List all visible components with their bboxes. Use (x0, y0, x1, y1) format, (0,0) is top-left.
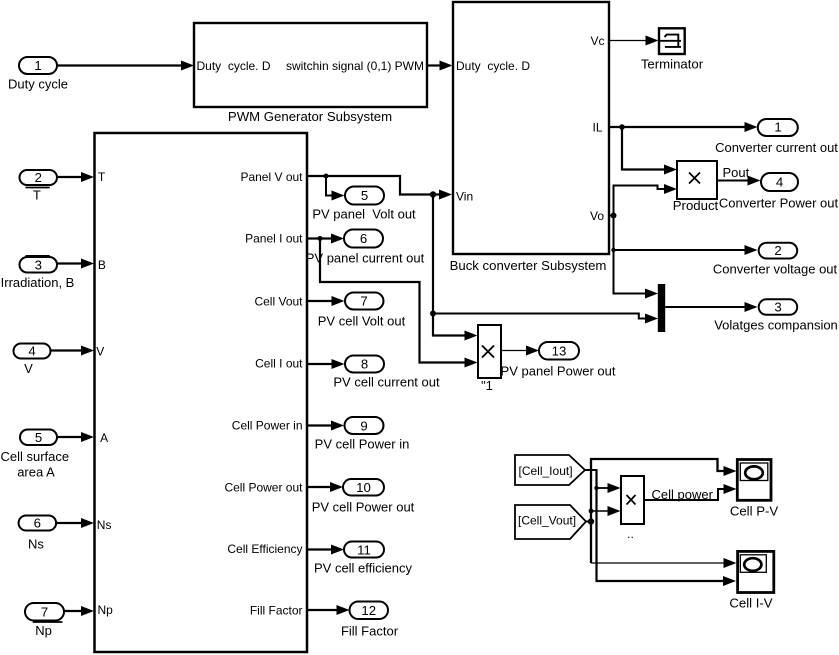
wire branch to port 5 (326, 176, 345, 201)
cell power product block (621, 476, 644, 541)
output port 7 PV cell Volt out (318, 293, 406, 329)
wire Cell Power out to port 10 (307, 482, 343, 492)
wire Panel V out to Vin (307, 174, 452, 200)
svg-text:2: 2 (774, 243, 781, 258)
PV panel subsystem U3 (95, 133, 308, 652)
output port 12 Fill Factor (341, 602, 399, 639)
svg-text:Converter voltage out: Converter voltage out (713, 262, 838, 277)
svg-text:Panel I out: Panel I out (245, 232, 303, 246)
svg-text:Irradiation, B: Irradiation, B (1, 275, 75, 290)
wire Vout to cell product in2 (589, 506, 621, 516)
output port 9 PV cell Power in (315, 417, 410, 452)
svg-text:B: B (98, 258, 106, 272)
wire port1 to PWM (57, 61, 194, 71)
svg-text:5: 5 (361, 188, 368, 203)
svg-text:Product: Product (673, 198, 719, 213)
output port 3 Volatges compansion (714, 299, 838, 332)
svg-text:PWM Generator Subsystem: PWM Generator Subsystem (228, 109, 392, 124)
output port 11 PV cell efficiency (314, 542, 413, 576)
svg-text:4: 4 (776, 175, 783, 190)
wire riser node B down to Product1 in1 (433, 195, 478, 341)
Product block (673, 161, 719, 213)
svg-text:Ns: Ns (97, 518, 112, 532)
input port 3 B (1, 256, 94, 290)
wire Product out to port 4, Pout (717, 165, 761, 186)
svg-text:Duty cycle: Duty cycle (8, 77, 68, 92)
svg-text:Cell power: Cell power (652, 487, 714, 502)
wire Fill Factor to port 12 (307, 605, 350, 615)
svg-text:A: A (100, 431, 108, 445)
wire mux in2 long from node B riser (430, 311, 658, 324)
wire PWM to Buck (427, 61, 453, 71)
svg-text:5: 5 (35, 430, 42, 445)
wire Product1 out to port 13 (501, 346, 539, 356)
svg-text:Fill Factor: Fill Factor (250, 604, 303, 618)
svg-text:Cell surface: Cell surface (0, 449, 69, 464)
input port 1 Duty cycle (8, 57, 68, 92)
From tag Cell_Vout (515, 505, 586, 539)
wire riser Iout down to Cell I-V in2 (597, 470, 737, 586)
PWM Generator Subsystem U1 (194, 23, 427, 124)
svg-text:Buck converter Subsystem: Buck converter Subsystem (450, 258, 607, 273)
svg-text:Np: Np (98, 603, 114, 617)
svg-text:2: 2 (35, 170, 42, 185)
svg-text:Volatges compansion: Volatges compansion (714, 318, 838, 333)
svg-text:Panel V out: Panel V out (240, 170, 303, 184)
From tag Cell_Iout (515, 455, 585, 485)
svg-text:7: 7 (41, 605, 48, 620)
wire mux out to port 3 (665, 302, 757, 312)
Buck converter Subsystem U2 (450, 2, 609, 273)
svg-text:10: 10 (356, 480, 371, 495)
svg-text:6: 6 (34, 516, 41, 531)
wire Cell Power in to port 9 (307, 421, 344, 431)
output port 2 Converter voltage out (713, 243, 838, 277)
svg-text:12: 12 (361, 603, 376, 618)
wire Vc to Terminator (609, 36, 659, 46)
output port 1 Converter current out (715, 119, 838, 155)
svg-text:6: 6 (360, 231, 367, 246)
svg-text:4: 4 (28, 344, 35, 359)
svg-text:PV cell current out: PV cell current out (333, 375, 440, 390)
wire Vout riser to Cell I-V in1 (591, 558, 737, 568)
svg-text:T: T (98, 170, 106, 184)
svg-text:[Cell_Iout]: [Cell_Iout] (519, 464, 573, 478)
input port 6 Ns (19, 516, 94, 552)
svg-text:[Cell_Vout]: [Cell_Vout] (518, 514, 576, 528)
svg-text:Pout: Pout (723, 165, 750, 180)
svg-text:Duty cycle. D: Duty cycle. D (197, 59, 271, 73)
wire IL to Converter current out (609, 122, 758, 132)
wire Cell I out to port 8 (307, 359, 345, 369)
output port 4 Converter Power out (719, 173, 839, 211)
output port 8 PV cell current out (333, 356, 440, 390)
svg-text:Ns: Ns (28, 537, 44, 552)
svg-text:Np: Np (35, 623, 52, 638)
svg-text:V: V (96, 345, 104, 359)
Product1 "1 block (478, 325, 501, 393)
svg-text:Cell Vout: Cell Vout (254, 295, 303, 309)
wire tap to Converter voltage out (611, 245, 757, 255)
svg-text:11: 11 (357, 543, 371, 558)
svg-text:T: T (33, 187, 41, 202)
output port 5 PV panel Volt out (312, 187, 416, 222)
svg-text:Vc: Vc (590, 34, 604, 48)
svg-text:Cell Efficiency: Cell Efficiency (227, 542, 302, 556)
wire riser Vout: top to Cell P-V in1 (591, 459, 737, 563)
wire Cell Vout to port 7 (307, 296, 345, 306)
svg-text:3: 3 (774, 300, 781, 315)
svg-text:Duty cycle. D: Duty cycle. D (456, 59, 530, 73)
svg-text:PV panel Volt out: PV panel Volt out (312, 207, 416, 222)
mux (658, 284, 665, 332)
output port 13 PV panel Power out (501, 342, 616, 379)
svg-text:1: 1 (34, 58, 41, 73)
svg-text:Converter current out: Converter current out (715, 140, 838, 155)
svg-text:PV cell efficiency: PV cell efficiency (314, 561, 413, 576)
input port 7 Np (25, 603, 94, 638)
svg-text:Cell Power out: Cell Power out (224, 481, 303, 495)
svg-text:1: 1 (774, 120, 781, 135)
input port 4 V (14, 344, 95, 377)
wire Panel I out to port 6 (307, 234, 344, 244)
svg-text:V: V (24, 361, 33, 376)
output port 6 PV panel current out (306, 230, 425, 266)
svg-text:Cell Power in: Cell Power in (232, 419, 303, 433)
svg-text:Cell P-V: Cell P-V (730, 504, 779, 519)
wire Cell Efficiency to port 11 (307, 545, 344, 555)
svg-text:9: 9 (360, 419, 367, 434)
svg-text:7: 7 (360, 294, 367, 309)
wire Panel I out branch to Product1 in2 (320, 239, 478, 368)
svg-text:area A: area A (17, 465, 55, 480)
svg-text:13: 13 (552, 344, 567, 359)
input port 5 A (0, 430, 94, 480)
svg-text:PV cell Volt out: PV cell Volt out (318, 314, 406, 329)
svg-text:"1: "1 (481, 378, 493, 393)
svg-text:3: 3 (35, 258, 42, 273)
wire Vo riser down to mux in1 (614, 216, 659, 299)
svg-text:Terminator: Terminator (641, 57, 704, 72)
wire cell power out to Cell P-V in2, Cell power label (644, 484, 737, 502)
scope Cell P-V (730, 460, 779, 519)
svg-text:Vo: Vo (590, 209, 604, 223)
wire IL branch to Product in1 (622, 127, 677, 175)
svg-text:PV panel Power out: PV panel Power out (501, 364, 616, 379)
svg-text:IL: IL (592, 121, 602, 135)
wire Cell_Iout to riser (585, 469, 598, 471)
output port 10 PV cell Power out (312, 479, 415, 515)
wire Vo to Product in2 (609, 184, 677, 219)
svg-text:Converter Power out: Converter Power out (719, 196, 839, 211)
scope Cell I-V (729, 551, 773, 610)
svg-text:PV cell Power out: PV cell Power out (312, 500, 415, 515)
svg-text:Vin: Vin (456, 190, 473, 204)
svg-text:PV cell Power in: PV cell Power in (315, 437, 410, 452)
svg-text:PV panel current out: PV panel current out (306, 251, 425, 266)
input port 2 T (20, 170, 95, 202)
svg-text:Fill Factor: Fill Factor (341, 624, 399, 639)
Terminator (641, 28, 704, 71)
wire Iout to cell product in1 (594, 483, 620, 493)
svg-text:..: .. (627, 527, 634, 541)
wire Cell_Vout to riser (586, 518, 594, 524)
svg-text:8: 8 (361, 357, 368, 372)
svg-text:Cell I-V: Cell I-V (729, 596, 772, 611)
svg-text:Cell I out: Cell I out (255, 357, 303, 371)
svg-text:switchin signal (0,1) PWM: switchin signal (0,1) PWM (286, 59, 424, 73)
